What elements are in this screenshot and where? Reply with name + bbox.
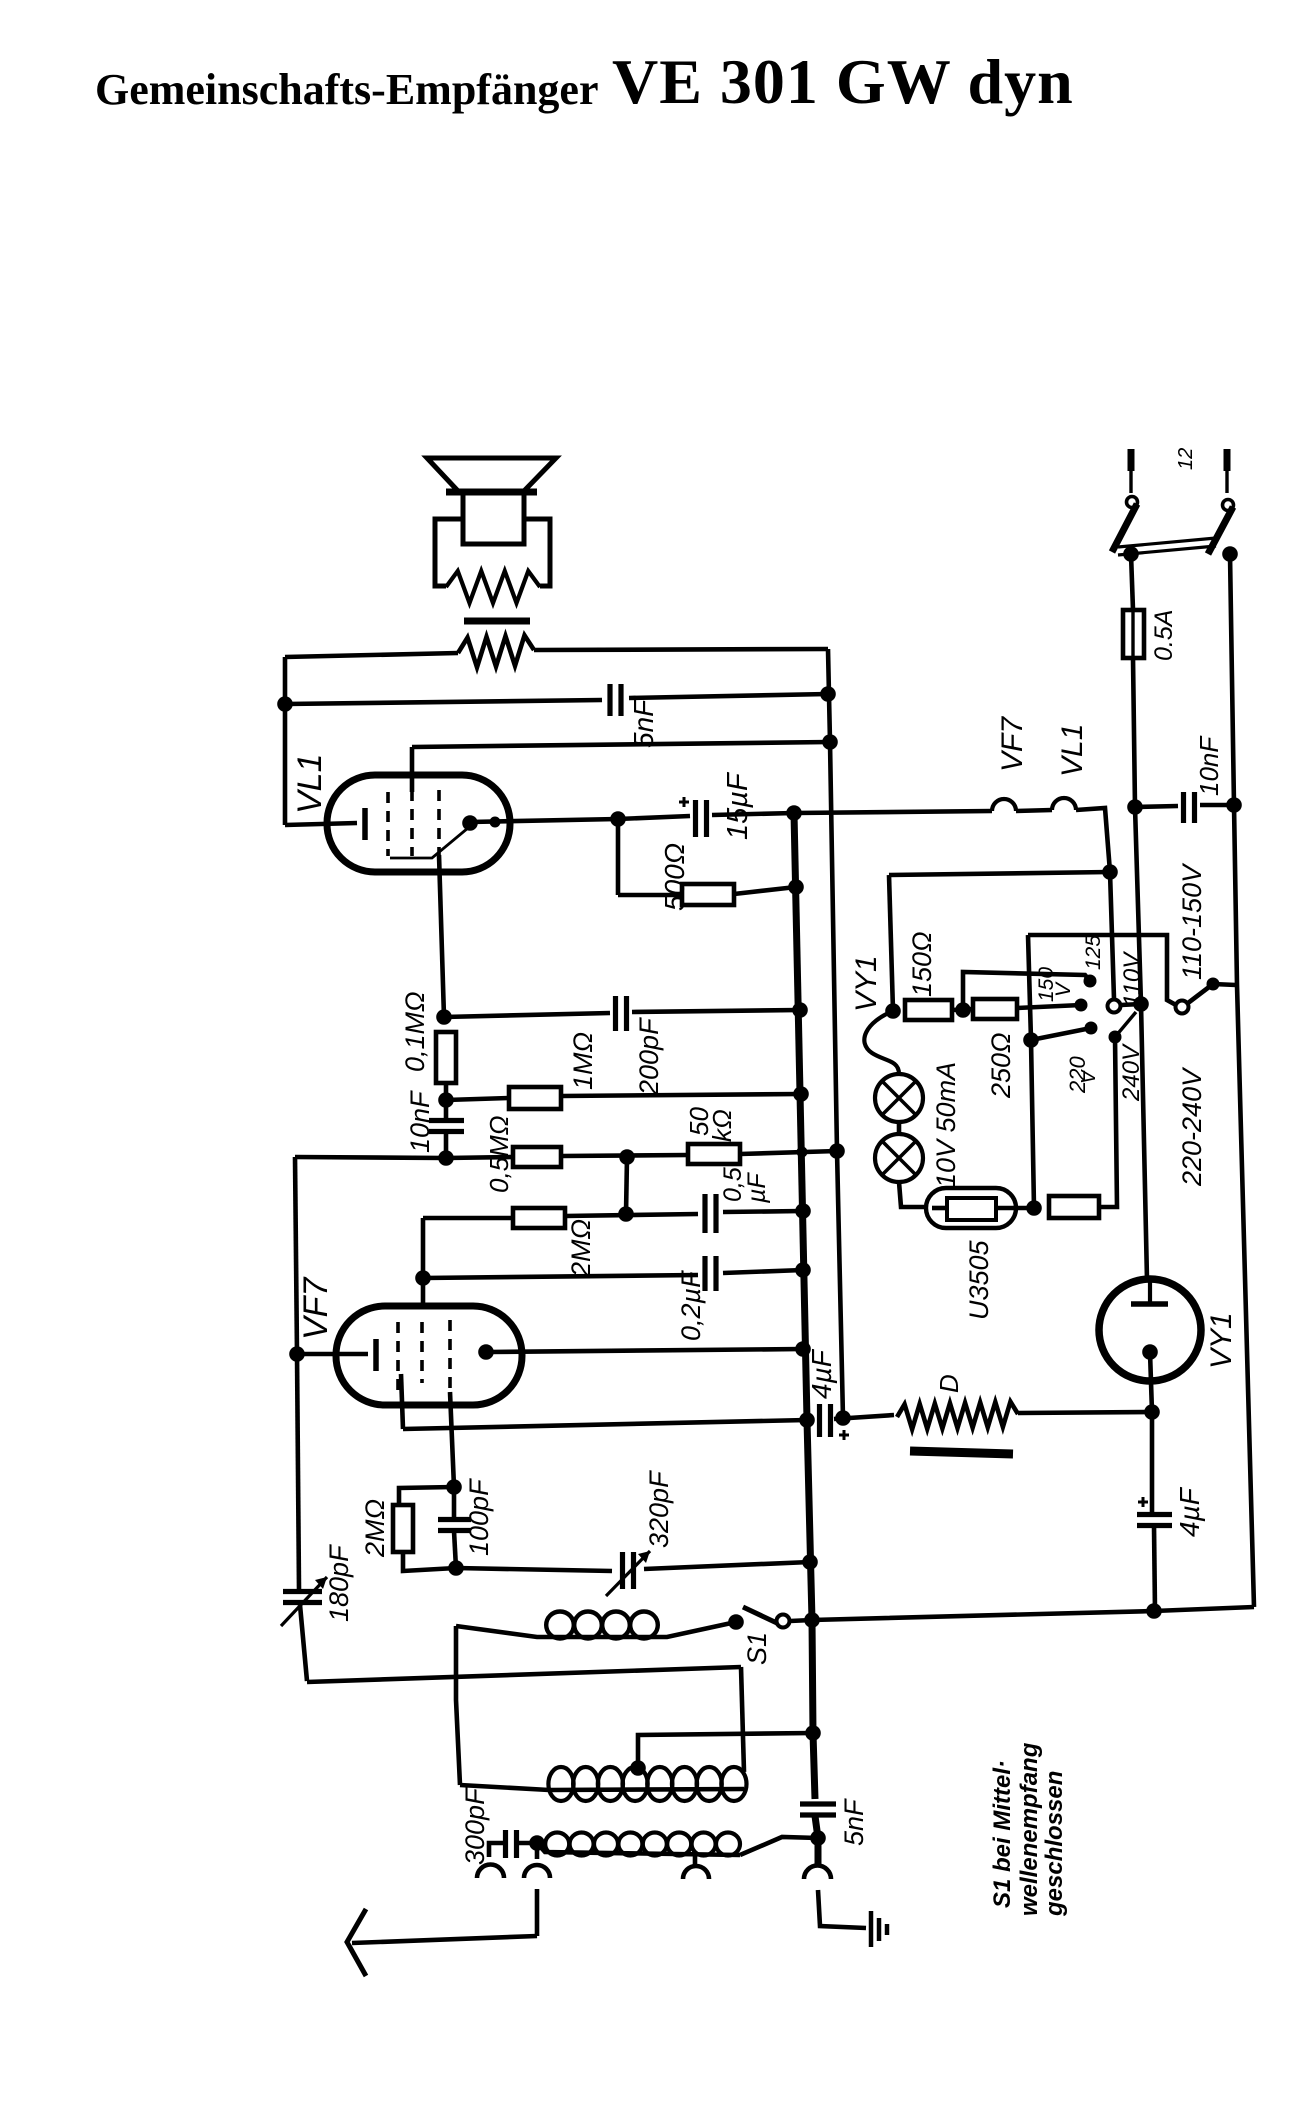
svg-text:5nF: 5nF — [839, 1798, 869, 1846]
wire VY1 down — [1150, 1412, 1155, 1514]
label 50kΩ — [684, 1107, 737, 1142]
inductor coil L2a — [548, 1767, 746, 1801]
wire arm link — [1213, 984, 1236, 985]
wire 4uF-D link — [834, 1415, 894, 1419]
wire 10nF right lead — [1200, 803, 1234, 808]
tube VF7 envelope — [336, 1306, 522, 1405]
capacitor C 10nF right — [1184, 792, 1195, 823]
node 02uF junction — [415, 1270, 431, 1286]
node return-VY1 — [1146, 1603, 1162, 1619]
wire combo 2M branch — [399, 1487, 454, 1505]
resistor R 500Ω — [682, 884, 734, 905]
label 2MΩ bottom — [360, 1499, 390, 1558]
wire right mains — [1230, 554, 1254, 1607]
label VL1 — [291, 754, 329, 815]
wire VF7 anode — [488, 1349, 803, 1352]
wire W2 right — [629, 694, 828, 698]
node combo bottom — [448, 1560, 464, 1576]
svg-text:VF7: VF7 — [996, 716, 1029, 772]
svg-text:10nF: 10nF — [1194, 735, 1224, 796]
label 200pF — [634, 1017, 664, 1096]
svg-text:VL1: VL1 — [291, 754, 329, 815]
wire W4 heater run — [794, 811, 992, 813]
label 320pF — [644, 1470, 674, 1548]
tube VL1 cathode — [285, 808, 365, 840]
svg-text:5nF: 5nF — [628, 698, 659, 748]
ground symbol — [871, 1911, 887, 1947]
capacitor C 10nF left — [429, 1100, 464, 1158]
svg-text:V: V — [1078, 1069, 1100, 1084]
resistor R 2MΩ grid — [513, 1208, 565, 1228]
wire 300pF right — [517, 1841, 537, 1846]
label 180pF — [324, 1544, 354, 1622]
svg-text:V: V — [1052, 981, 1075, 997]
tube VF7 grid dashes — [398, 1320, 450, 1392]
wire coil2 leadin — [460, 1785, 549, 1790]
wire VF7 grid vertical — [421, 1218, 426, 1307]
node arm end — [1207, 978, 1220, 991]
node 05uF junction — [618, 1206, 634, 1222]
svg-text:4µF: 4µF — [1174, 1486, 1205, 1537]
label 0,5MΩ — [484, 1115, 514, 1193]
wire L2 below 5nF — [815, 1816, 818, 1864]
capacitor C 200pF — [616, 996, 627, 1031]
resistor R 0,1MΩ — [436, 1032, 456, 1083]
svg-text:220-240V: 220-240V — [1177, 1066, 1207, 1187]
wire S1 right — [790, 1620, 812, 1621]
tube VY1 cathode — [1142, 1344, 1158, 1412]
wire W24 drop — [741, 1667, 744, 1772]
label 0.5A — [1150, 610, 1178, 661]
node 150V tap — [1075, 999, 1088, 1012]
speaker separator bar — [464, 618, 530, 625]
node W19-L2 — [799, 1412, 815, 1428]
label 2MΩ grid — [566, 1219, 596, 1278]
svg-text:S1: S1 — [742, 1632, 772, 1665]
jack ground — [804, 1866, 831, 1880]
wire 02uF left — [423, 1275, 698, 1278]
svg-text:VE 301 GW dyn: VE 301 GW dyn — [612, 46, 1074, 117]
wire combo 2M out — [403, 1552, 456, 1571]
tube VF7 anode — [478, 1344, 494, 1360]
svg-text:100pF: 100pF — [464, 1478, 494, 1556]
svg-text:Gemeinschafts-Empfänger: Gemeinschafts-Empfänger — [95, 65, 599, 114]
label 0,2µF — [676, 1270, 706, 1341]
jack A2 — [524, 1865, 550, 1878]
svg-text:320pF: 320pF — [644, 1470, 674, 1548]
switch selector pivot — [1176, 1001, 1189, 1014]
switch selector arm — [1188, 984, 1213, 1003]
label 150V — [1035, 967, 1075, 1002]
switch S1 blade — [743, 1607, 779, 1624]
inductor coil L3a — [537, 1833, 740, 1856]
tube VL1 anode — [390, 815, 501, 858]
switch mains left — [1112, 497, 1138, 553]
resistor U3505 element — [947, 1198, 996, 1220]
svg-text:wellenempfang: wellenempfang — [1016, 1742, 1043, 1916]
wire left column upper — [295, 1157, 297, 1354]
svg-text:geschlossen: geschlossen — [1041, 1771, 1068, 1917]
label 4µF left — [806, 1348, 837, 1399]
resistor R 0,5MΩ — [513, 1147, 561, 1167]
svg-text:10nF: 10nF — [405, 1090, 435, 1153]
svg-text:150Ω: 150Ω — [907, 931, 937, 997]
node coil2 tap — [630, 1760, 646, 1776]
wire 500R out — [734, 887, 796, 894]
label 15µF — [722, 771, 754, 840]
capacitor C 15µF — [679, 797, 707, 837]
svg-text:15µF: 15µF — [722, 771, 754, 840]
wire 4uF right down — [1154, 1526, 1155, 1611]
label 5nF bottom — [839, 1798, 869, 1846]
label D — [934, 1374, 964, 1393]
capacitor C 320pF variable — [606, 1551, 650, 1596]
jack A2 stem — [535, 1843, 540, 1859]
wire 200pF right — [632, 1010, 800, 1012]
wire coil1 out — [0, 0, 1, 1]
speaker LS cone — [427, 458, 556, 492]
wire 05uF drop — [626, 1157, 627, 1214]
wire 05uF right — [723, 1211, 803, 1212]
svg-text:500Ω: 500Ω — [659, 843, 690, 911]
label VY1 heater — [850, 955, 883, 1012]
node 500R-L2 — [788, 879, 804, 895]
node heater tap — [1102, 864, 1118, 880]
wire 220V stub — [1031, 1028, 1091, 1040]
wire W3 grid — [412, 742, 830, 792]
node 240V tap — [1109, 1012, 1137, 1044]
label 250Ω — [986, 1032, 1016, 1099]
label 1MΩ — [568, 1032, 598, 1090]
label VF7 — [297, 1277, 335, 1340]
label 220V — [1065, 1056, 1100, 1094]
wire W14 left — [295, 1157, 513, 1158]
wire VY1 heater curve — [864, 1011, 899, 1074]
node 125V tap — [1084, 975, 1097, 988]
label S1 — [742, 1632, 772, 1665]
label 10V 50mA — [931, 1062, 961, 1188]
node 220V tap — [1085, 1022, 1098, 1035]
tube U3505 envelope — [926, 1188, 1016, 1228]
svg-text:VL1: VL1 — [1056, 724, 1089, 777]
node W1-L1 corner — [0, 0, 1, 1]
plug pin left — [1128, 449, 1135, 493]
jack E — [683, 1866, 709, 1879]
node 220V junction — [1023, 1032, 1039, 1048]
wire W14 right — [740, 1151, 837, 1154]
wire W22 — [456, 1562, 810, 1571]
node W22-L2 — [802, 1554, 818, 1570]
capacitor C 100pF — [438, 1487, 471, 1568]
wire D right — [1018, 1412, 1152, 1413]
node 300pF right — [529, 1835, 545, 1851]
svg-text:250Ω: 250Ω — [986, 1032, 1016, 1099]
node S1 contact — [728, 1614, 744, 1630]
wire L1 vertical bus — [828, 649, 843, 1418]
resistor D core bar — [910, 1451, 1013, 1454]
node 05uF-L2 — [795, 1203, 811, 1219]
label 10nF right — [1194, 735, 1224, 796]
resistor output zigzag — [458, 635, 534, 667]
wire 10nF left — [1135, 806, 1178, 807]
capacitor C 0,5µF — [705, 1194, 716, 1233]
label 100pF — [464, 1478, 494, 1556]
svg-text:12: 12 — [1175, 448, 1197, 470]
node leak junction — [436, 1009, 452, 1025]
speaker voice coil — [463, 493, 524, 544]
node S1-L2 — [804, 1612, 820, 1628]
resistor D zigzag — [897, 1402, 1018, 1429]
resistor R 250Ω — [973, 999, 1017, 1019]
node U3505 out — [1026, 1200, 1042, 1216]
node mains left — [1123, 546, 1139, 562]
wire 2M grid run — [423, 1216, 513, 1221]
lamp dial 1 — [875, 1074, 923, 1122]
jack E stem — [693, 1856, 698, 1865]
svg-text:0,1MΩ: 0,1MΩ — [400, 991, 430, 1072]
node tap-L2 — [805, 1725, 821, 1741]
svg-text:0,2µF: 0,2µF — [676, 1270, 706, 1341]
capacitor C 300pF — [506, 1830, 517, 1858]
label 4µF right — [1174, 1486, 1205, 1537]
node W2-left junction — [277, 696, 293, 712]
wire VL1 leak top — [439, 855, 444, 1017]
wire 300pF left — [489, 1843, 505, 1857]
node fuse-10nF — [1127, 799, 1143, 815]
wire 500R branch — [618, 819, 682, 895]
svg-text:VY1: VY1 — [1205, 1312, 1238, 1369]
wire 150-250 link — [952, 1009, 973, 1010]
wire antenna lead — [352, 1936, 537, 1943]
wire heater tap — [889, 872, 1110, 1011]
capacitor C 5nF top — [610, 684, 621, 716]
wire W24 horiz — [307, 1667, 741, 1682]
wire VL1 cathode lead — [283, 657, 288, 825]
node 10nF bottom — [438, 1150, 454, 1166]
wire coil3 out — [740, 1837, 818, 1855]
label 500Ω — [659, 843, 690, 911]
capacitor C 180pF variable — [281, 1577, 327, 1626]
wire left column mid — [297, 1354, 299, 1589]
node VY1 cathode junction — [1144, 1404, 1160, 1420]
wire bottom return — [812, 1607, 1254, 1620]
wire 1M left — [446, 1098, 509, 1100]
wire 200pF left — [444, 1013, 610, 1017]
node W14 branch — [619, 1149, 635, 1165]
wire 125V link — [963, 972, 1090, 1010]
svg-text:4µF: 4µF — [806, 1348, 837, 1399]
wire fuse lead — [1131, 554, 1133, 610]
wire lamp link — [897, 1122, 902, 1134]
speaker field-coil housing — [435, 519, 550, 603]
label 110V — [1119, 951, 1146, 1007]
label 0,5µF — [719, 1167, 771, 1204]
wire W1 left — [285, 653, 458, 657]
svg-text:0,5MΩ: 0,5MΩ — [484, 1115, 514, 1193]
wire 110V link — [1121, 1004, 1141, 1005]
label 150Ω — [907, 931, 937, 997]
wire W4 between bumps — [1016, 810, 1052, 811]
resistor R right — [1049, 1196, 1099, 1218]
switch mains right — [1208, 500, 1234, 555]
node VF7anode-L2 — [795, 1341, 811, 1357]
lamp dial 2 — [875, 1134, 923, 1182]
node 1M-L2 — [793, 1086, 809, 1102]
svg-text:S1 bei Mittel·: S1 bei Mittel· — [989, 1760, 1016, 1908]
svg-text:0.5A: 0.5A — [1150, 610, 1178, 661]
wire Rright out — [1099, 1037, 1117, 1207]
svg-text:110-150V: 110-150V — [1177, 862, 1207, 980]
node coil3-L2 — [810, 1830, 826, 1846]
wire 05uF mid — [565, 1214, 698, 1216]
capacitor C 5nF bottom — [800, 1804, 836, 1815]
label 110-150V — [1177, 862, 1207, 980]
wire U3505 through — [932, 1206, 1034, 1211]
label 300pF — [460, 1787, 490, 1865]
svg-text:200pF: 200pF — [634, 1017, 664, 1096]
wire lamp to U3505 — [899, 1182, 926, 1207]
label VL1 heater — [1056, 724, 1089, 777]
node VF7 cathode-left — [289, 1346, 305, 1362]
node 150R right — [955, 1002, 971, 1018]
wire VF7 lead2 — [450, 1392, 454, 1487]
svg-text:2MΩ: 2MΩ — [360, 1499, 390, 1558]
wire A2 pin — [535, 1889, 540, 1936]
switch S1 pivot — [777, 1615, 790, 1628]
antenna arrow — [347, 1909, 366, 1976]
node W14-L1 — [829, 1143, 845, 1159]
label 220-240V — [1177, 1066, 1207, 1187]
wire 02uF right — [723, 1270, 803, 1273]
wire VF7 bottom — [401, 1374, 807, 1429]
jack A1 — [477, 1865, 504, 1879]
label 5nF top — [628, 698, 659, 748]
wire left column lower — [300, 1605, 307, 1681]
wire W1 right — [534, 649, 828, 650]
switch coupling bar — [1118, 538, 1216, 555]
svg-text:300pF: 300pF — [460, 1787, 490, 1865]
tube VL1 grid dashes — [388, 790, 439, 856]
node D left junction — [835, 1410, 851, 1426]
label 125V — [1082, 935, 1105, 970]
plug pin right — [1224, 449, 1231, 493]
label 0,1MΩ — [400, 991, 430, 1072]
resistor R 2MΩ bottom — [393, 1505, 413, 1552]
fuse 0.5A — [1123, 610, 1144, 658]
wire L2 bus upper — [794, 813, 807, 1420]
svg-text:kΩ: kΩ — [707, 1109, 737, 1142]
title text — [95, 46, 1074, 117]
svg-text:VF7: VF7 — [297, 1277, 335, 1340]
svg-text:1MΩ: 1MΩ — [568, 1032, 598, 1090]
wire 1M right — [561, 1094, 801, 1096]
svg-text:VY1: VY1 — [850, 955, 883, 1012]
wire fuse down — [1133, 658, 1147, 1280]
svg-text:U3505: U3505 — [964, 1239, 994, 1320]
svg-text:µF: µF — [743, 1172, 771, 1204]
node 200pF-L2 — [792, 1002, 808, 1018]
node 02uF-L2 — [795, 1262, 811, 1278]
label VY1 — [1205, 1312, 1238, 1369]
resistor R 150Ω — [905, 1000, 952, 1020]
capacitor C 4µF right — [1137, 1497, 1172, 1526]
wire coil2 tap — [638, 1733, 813, 1768]
inductor coil L1a — [456, 1612, 736, 1639]
node 1M junction — [438, 1092, 454, 1108]
wire 250R out — [1017, 1005, 1081, 1008]
svg-text:2MΩ: 2MΩ — [566, 1219, 596, 1278]
tube VL1 envelope — [327, 775, 510, 872]
wire ground pin — [818, 1890, 866, 1928]
svg-text:D: D — [934, 1374, 964, 1393]
label 10nF left — [405, 1090, 435, 1153]
tube VY1 anode — [1131, 1282, 1168, 1304]
node mains right — [1222, 546, 1238, 562]
wire S1 left — [0, 0, 1, 1]
resistor R 50kΩ — [688, 1144, 740, 1164]
wire coil2 vertical — [456, 1626, 460, 1785]
node W4-L2 junction — [786, 805, 802, 821]
label mains 12 — [1175, 448, 1197, 470]
wire 01M out — [444, 1083, 449, 1100]
node W3-L1 junction — [822, 734, 838, 750]
tube VF7 heater bump — [992, 799, 1016, 811]
tube VL1 heater bump — [1052, 798, 1076, 810]
capacitor C 4µF left — [820, 1404, 850, 1440]
wire W4 to corner — [1076, 808, 1114, 999]
wire W2 left — [285, 700, 602, 704]
tube VF7 cathode — [297, 1339, 376, 1371]
wire selector top — [1028, 935, 1176, 1005]
svg-text:10V 50mA: 10V 50mA — [931, 1062, 961, 1188]
node 10nF-right mains — [1226, 797, 1242, 813]
wire W14 mid — [561, 1155, 688, 1156]
node combo top — [446, 1479, 462, 1495]
node 110V right — [1133, 996, 1149, 1012]
label 240V — [1118, 1043, 1145, 1102]
tube VY1 envelope — [1099, 1279, 1201, 1381]
node 150R left — [885, 1003, 901, 1019]
node W4 500R junction — [610, 811, 626, 827]
wire L2 bus lower — [807, 1420, 815, 1799]
resistor R 1MΩ — [509, 1087, 561, 1109]
label U3505 — [964, 1239, 994, 1320]
label VF7 heater — [996, 716, 1029, 772]
switch 110V contact — [1108, 1000, 1121, 1013]
wire selector vertical — [1028, 935, 1034, 1208]
capacitor C 0,2µF — [705, 1256, 716, 1291]
svg-text:125: 125 — [1082, 935, 1105, 970]
wire W4 anode — [470, 816, 690, 822]
svg-text:180pF: 180pF — [324, 1544, 354, 1622]
wire W4 mid — [712, 813, 794, 815]
node W14-L2 cross — [797, 1147, 808, 1158]
node W2-L1 junction — [820, 686, 836, 702]
note S1 text — [989, 1742, 1068, 1917]
